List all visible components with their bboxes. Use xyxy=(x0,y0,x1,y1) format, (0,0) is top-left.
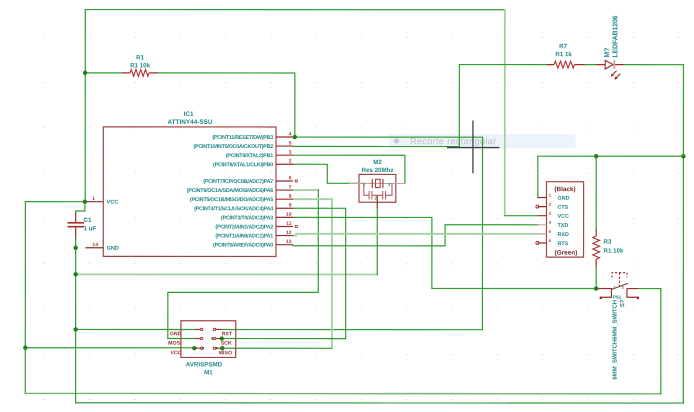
svg-text:TXD: TXD xyxy=(557,223,568,229)
svg-text:(PCINT8/XTAL1/CLKI)PB0: (PCINT8/XTAL1/CLKI)PB0 xyxy=(213,162,273,168)
svg-text:1 uF: 1 uF xyxy=(83,225,96,232)
wire VCC R1 left segment xyxy=(85,72,122,74)
svg-text:3: 3 xyxy=(549,211,552,216)
svg-text:9: 9 xyxy=(289,203,292,209)
wire pin12 RXD run xyxy=(293,234,538,236)
svg-text:R1 1k: R1 1k xyxy=(555,51,572,58)
svg-text:4: 4 xyxy=(289,131,292,137)
switch S1 6MM_SWITCH xyxy=(598,273,639,380)
svg-text:1: 1 xyxy=(92,196,95,202)
IC IC1 ATTINY44-SSU xyxy=(85,111,297,257)
svg-text:(PCINT4/T1/SCL/USCK/ADC4)PA4: (PCINT4/T1/SCL/USCK/ADC4)PA4 xyxy=(194,206,273,212)
svg-text:1: 1 xyxy=(363,182,366,187)
wire VCC pin1 segment xyxy=(25,201,85,203)
svg-text:P$1: P$1 xyxy=(613,295,622,300)
resistor R7 xyxy=(547,43,585,68)
svg-text:VCC: VCC xyxy=(107,200,119,206)
wire pin3 XTAL2 run xyxy=(293,155,405,183)
capacitor C1 xyxy=(67,212,96,238)
crosshair cursor xyxy=(447,120,499,173)
wire SCK row xyxy=(222,338,346,340)
svg-text:7: 7 xyxy=(289,184,292,190)
svg-text:(Black): (Black) xyxy=(554,186,575,193)
svg-text:RTS: RTS xyxy=(557,241,568,247)
svg-text:R3: R3 xyxy=(603,239,611,246)
svg-text:(PCINT3/T0/ADC3)PA3: (PCINT3/T0/ADC3)PA3 xyxy=(221,215,273,221)
svg-text:1: 1 xyxy=(613,285,616,290)
svg-text:5: 5 xyxy=(549,229,552,234)
wire FTDI GND riser xyxy=(537,156,539,197)
svg-text:M2: M2 xyxy=(373,159,382,166)
wire pin5 row xyxy=(293,145,459,147)
wire R3 top lead xyxy=(595,156,597,228)
svg-text:(PCINT11/RESET/DW)PB3: (PCINT11/RESET/DW)PB3 xyxy=(212,135,273,141)
svg-text:Res 20Mhz: Res 20Mhz xyxy=(362,167,394,174)
svg-text:3: 3 xyxy=(388,182,391,187)
svg-text:4: 4 xyxy=(549,220,552,225)
svg-text:6MM_SWITCH6MM_SWITCH: 6MM_SWITCH6MM_SWITCH xyxy=(613,300,619,380)
wire LED right vertical xyxy=(682,65,684,403)
svg-text:MOSI: MOSI xyxy=(168,341,182,347)
IC1 pin stubs xyxy=(85,137,293,248)
svg-text:RXD: RXD xyxy=(557,232,568,238)
svg-text:6: 6 xyxy=(549,238,552,243)
svg-text:VCC: VCC xyxy=(557,214,568,220)
wire pin13 run xyxy=(293,225,538,246)
M2 lead and crystal body xyxy=(349,182,404,184)
wire pin8 segment xyxy=(293,198,332,200)
svg-text:(PCINT9/XTAL2)PB1: (PCINT9/XTAL2)PB1 xyxy=(226,153,273,159)
svg-text:S?: S? xyxy=(620,299,626,307)
svg-text:M?: M? xyxy=(604,48,611,58)
wire R3 bottom lead xyxy=(595,267,597,289)
svg-text:R1 10k: R1 10k xyxy=(130,62,151,69)
wire GND branch right xyxy=(76,273,378,275)
svg-text:8: 8 xyxy=(289,194,292,200)
svg-text:13: 13 xyxy=(286,239,292,245)
connector M1 AVRISPSMD xyxy=(168,321,236,377)
svg-text:(PCINT1/AIN0/ADC1)PA1: (PCINT1/AIN0/ADC1)PA1 xyxy=(215,234,273,240)
LED M? LEDFAB1206 xyxy=(596,15,623,79)
wire switch right drop xyxy=(660,289,662,394)
wire MOSI drop xyxy=(168,190,318,339)
FTDI unconnected pin circles (CTS, RTS) xyxy=(536,205,539,208)
wire VCC left vertical xyxy=(24,202,26,394)
wire GND left vertical xyxy=(75,248,77,403)
svg-text:2: 2 xyxy=(289,159,292,165)
wire GND cap jog xyxy=(76,202,85,213)
svg-text:IC1: IC1 xyxy=(184,111,194,118)
svg-text:R1: R1 xyxy=(136,54,144,61)
svg-text:2: 2 xyxy=(549,202,552,207)
wire FTDI VCC segment xyxy=(505,215,538,217)
svg-text:(Green): (Green) xyxy=(555,250,578,257)
svg-text:5: 5 xyxy=(289,140,292,146)
connector FTDI (Black/Green) xyxy=(536,182,584,257)
svg-text:AVRISPSMD: AVRISPSMD xyxy=(186,361,223,368)
svg-text:VCC: VCC xyxy=(170,350,181,356)
wire resonator tap down xyxy=(376,208,378,275)
wire MISO drop xyxy=(331,199,333,348)
M1 pin stubs and circles xyxy=(195,329,222,348)
svg-text:ATTINY44-SSU: ATTINY44-SSU xyxy=(168,119,213,126)
FTDI pin stubs and pin names GND,CTS,VCC,TXD,RXD,RTS xyxy=(538,196,547,198)
wire LED row left xyxy=(459,64,547,66)
resistor R3 xyxy=(593,229,624,267)
wire pin5 riser xyxy=(458,65,460,147)
wire VCC left drop to pin1 xyxy=(84,10,86,202)
wire pin10 run xyxy=(293,217,598,288)
svg-text:GND: GND xyxy=(558,196,570,202)
wire VCC drop to FTDI xyxy=(504,10,506,216)
svg-text:R7: R7 xyxy=(559,43,567,50)
wire R7 to LED gap xyxy=(585,64,597,66)
wire LED to corner xyxy=(624,64,684,66)
svg-text:11: 11 xyxy=(286,221,292,227)
wire pin9 run xyxy=(293,208,346,338)
snip overlay bar xyxy=(389,134,576,148)
svg-text:SCK: SCK xyxy=(221,341,232,347)
svg-text:(PCINT0/AREF/ADC0)PA0: (PCINT0/AREF/ADC0)PA0 xyxy=(213,243,273,249)
wire RST row xyxy=(222,329,483,331)
LED symbol triangle and cathode xyxy=(605,60,613,69)
wire AVRISP VCC row xyxy=(25,347,195,349)
wire MOSI row xyxy=(168,338,195,340)
wire MISO row xyxy=(222,347,332,349)
svg-text:CTS: CTS xyxy=(557,205,568,211)
svg-text:12: 12 xyxy=(286,230,292,236)
wire pin4 to RST drop xyxy=(295,137,483,330)
wire AVRISP GND row xyxy=(76,328,195,330)
svg-text:1: 1 xyxy=(549,193,552,198)
svg-text:(PCINT7/ICP/OC0B/ADC7)PA7: (PCINT7/ICP/OC0B/ADC7)PA7 xyxy=(203,179,273,185)
svg-text:GND: GND xyxy=(106,246,118,252)
svg-text:M1: M1 xyxy=(204,369,213,376)
svg-text:MISO: MISO xyxy=(219,350,232,356)
svg-text:R1 10k: R1 10k xyxy=(603,248,624,255)
wire R1 right to pin4 drop xyxy=(158,73,295,137)
svg-text:(PCINT5/OC1B/MISO/DO/ADC5)PA5: (PCINT5/OC1B/MISO/DO/ADC5)PA5 xyxy=(190,197,273,203)
wire cap to GND pin xyxy=(75,239,77,248)
IC1 unconnected pin circles (pins 6, 11) xyxy=(295,180,297,182)
wire VCC bottom rail xyxy=(25,392,660,394)
svg-text:LEDFAB1206: LEDFAB1206 xyxy=(612,15,619,57)
S1 contacts and actuator xyxy=(600,297,603,300)
svg-text:(PCINT2/AIN1/ADC2)PA2: (PCINT2/AIN1/ADC2)PA2 xyxy=(215,224,273,230)
svg-text:(PCINT10/INT0/OC0A/CKOUT)PB2: (PCINT10/INT0/OC0A/CKOUT)PB2 xyxy=(193,144,273,150)
wire GND bottom rail xyxy=(76,402,684,404)
svg-text:(PCINT6/OC1A/SDA/MOSI/ADC6)PA6: (PCINT6/OC1A/SDA/MOSI/ADC6)PA6 xyxy=(187,188,273,194)
wire pin7 segment xyxy=(293,189,318,191)
resonator M2 Res 20MHz xyxy=(349,159,404,208)
wire pin2 XTAL1 run xyxy=(293,164,361,183)
wire VCC top rail xyxy=(85,9,505,11)
svg-text:C1: C1 xyxy=(83,217,91,224)
svg-text:6: 6 xyxy=(289,175,292,181)
svg-text:GND: GND xyxy=(170,331,182,337)
svg-text:3: 3 xyxy=(289,150,292,156)
svg-text:14: 14 xyxy=(92,242,98,248)
svg-text:RST: RST xyxy=(222,331,233,337)
wire GND upper run xyxy=(538,155,684,157)
resistor R1 xyxy=(122,54,158,76)
wire switch right segment xyxy=(638,288,661,290)
svg-text:10: 10 xyxy=(286,212,292,218)
